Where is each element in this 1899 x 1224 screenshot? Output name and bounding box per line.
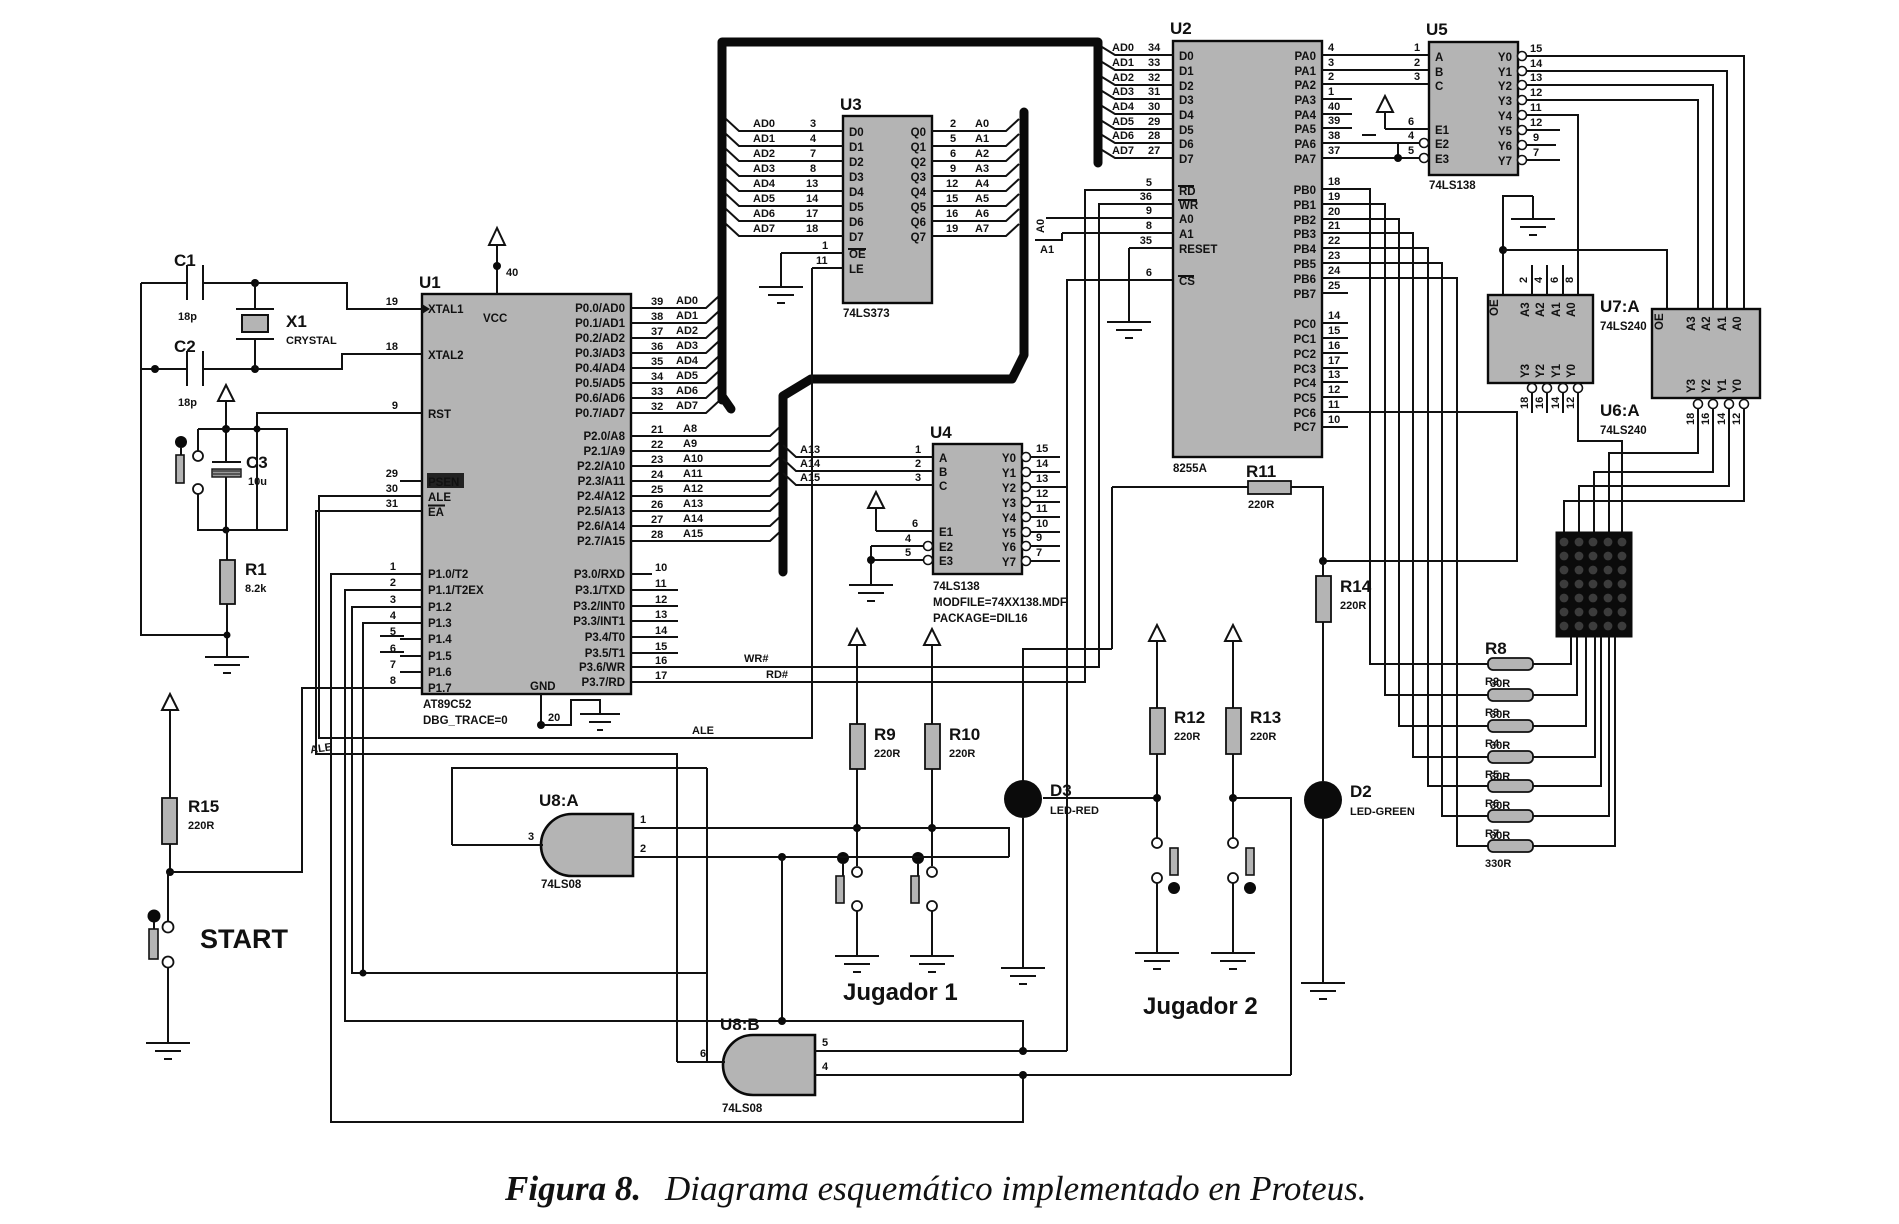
- svg-text:P2.6/A14: P2.6/A14: [577, 521, 626, 533]
- svg-text:10: 10: [1036, 518, 1048, 530]
- ground under R1: [205, 635, 249, 673]
- svg-text:LED-GREEN: LED-GREEN: [1350, 806, 1415, 818]
- U1 P0 pins right: [575, 295, 719, 420]
- svg-text:Y4: Y4: [1498, 111, 1513, 123]
- pin RST (9): [400, 412, 422, 414]
- svg-text:P0.3/AD3: P0.3/AD3: [575, 348, 625, 360]
- svg-text:R13: R13: [1250, 708, 1281, 727]
- svg-text:37: 37: [1328, 145, 1340, 157]
- svg-text:220R: 220R: [949, 748, 975, 760]
- svg-text:12: 12: [1328, 384, 1340, 396]
- svg-text:5: 5: [905, 547, 911, 559]
- svg-text:A15: A15: [800, 472, 820, 484]
- svg-text:2: 2: [1518, 277, 1530, 283]
- svg-text:3: 3: [810, 118, 816, 130]
- svg-text:Jugador 1: Jugador 1: [843, 979, 958, 1006]
- svg-text:74LS240: 74LS240: [1600, 425, 1647, 437]
- svg-text:A2: A2: [1535, 302, 1547, 317]
- svg-text:D0: D0: [1179, 51, 1194, 63]
- svg-text:13: 13: [1530, 72, 1542, 84]
- svg-text:PC5: PC5: [1294, 393, 1317, 405]
- svg-text:7: 7: [1533, 147, 1539, 159]
- svg-text:2: 2: [640, 843, 646, 855]
- svg-text:Jugador 2: Jugador 2: [1143, 993, 1258, 1020]
- svg-text:ALE: ALE: [428, 492, 451, 504]
- node XTAL1 junction: [251, 279, 259, 287]
- resistor row4: [1488, 751, 1533, 763]
- svg-text:19: 19: [386, 296, 398, 308]
- svg-text:16: 16: [1328, 340, 1340, 352]
- svg-text:U4: U4: [930, 423, 952, 442]
- svg-text:OE: OE: [1489, 299, 1501, 316]
- svg-text:18: 18: [1328, 176, 1340, 188]
- wire ALE net U1 to U3 LE: [309, 268, 812, 756]
- svg-text:30: 30: [386, 483, 398, 495]
- pin GND (20): [537, 694, 620, 730]
- U4 A B C inputs from bus: [783, 444, 947, 493]
- svg-text:16: 16: [946, 208, 958, 220]
- svg-text:17: 17: [806, 208, 818, 220]
- svg-text:Q1: Q1: [911, 142, 927, 154]
- svg-text:PB5: PB5: [1294, 259, 1317, 271]
- ground R13 button: [1211, 953, 1255, 969]
- svg-text:PA4: PA4: [1294, 110, 1316, 122]
- svg-text:36: 36: [651, 341, 663, 353]
- svg-text:D5: D5: [1179, 125, 1194, 137]
- svg-text:P1.2: P1.2: [428, 602, 452, 614]
- svg-text:A6: A6: [975, 208, 989, 220]
- svg-text:A1: A1: [975, 133, 989, 145]
- U4 Y outputs: [1002, 443, 1067, 569]
- buffer U7:A 74LS240: [1488, 265, 1647, 532]
- svg-text:Q4: Q4: [911, 187, 927, 199]
- svg-text:PA0: PA0: [1294, 51, 1316, 63]
- svg-text:P0.0/AD0: P0.0/AD0: [575, 303, 625, 315]
- svg-text:A14: A14: [683, 513, 704, 525]
- U1 P3 pins right: [573, 562, 678, 689]
- bus A0-A15 address: [783, 112, 1024, 572]
- svg-text:P3.6/WR: P3.6/WR: [579, 662, 626, 674]
- svg-text:A13: A13: [683, 498, 703, 510]
- svg-text:2: 2: [1328, 71, 1334, 83]
- svg-text:34: 34: [651, 371, 664, 383]
- svg-text:1: 1: [390, 561, 396, 573]
- svg-text:START: START: [200, 924, 288, 954]
- svg-text:P1.1/T2EX: P1.1/T2EX: [428, 585, 484, 597]
- svg-text:Y2: Y2: [1002, 483, 1016, 495]
- pin U3 OE (1): [781, 252, 843, 254]
- svg-text:74LS138: 74LS138: [1429, 180, 1476, 192]
- U1 P2 pins right: [577, 423, 783, 548]
- svg-text:Y0: Y0: [1498, 52, 1512, 64]
- svg-text:AT89C52: AT89C52: [423, 699, 471, 711]
- svg-text:18p: 18p: [178, 397, 197, 409]
- pin U2 RD (5): [1146, 177, 1196, 198]
- svg-text:AD4: AD4: [1112, 101, 1135, 113]
- decoder U5 74LS138: [1362, 20, 1744, 309]
- svg-text:32: 32: [1148, 72, 1160, 84]
- svg-text:P1.7: P1.7: [428, 683, 452, 695]
- wire U8B pin5: [815, 1050, 1067, 1052]
- U5 Y outputs: [1498, 43, 1744, 309]
- svg-text:A13: A13: [800, 444, 820, 456]
- svg-text:AD7: AD7: [1112, 145, 1134, 157]
- svg-text:Diagrama esquemático implement: Diagrama esquemático implementado en Pro…: [664, 1169, 1367, 1208]
- svg-text:AD1: AD1: [753, 133, 775, 145]
- svg-text:220R: 220R: [188, 820, 214, 832]
- svg-text:28: 28: [651, 529, 663, 541]
- wire CS net (U4 Y2 - U2 CS - U8B.5): [1067, 280, 1174, 1051]
- svg-text:PC0: PC0: [1294, 319, 1316, 331]
- pin U5 E1 (6) with VCC: [1362, 96, 1450, 137]
- svg-text:4: 4: [1533, 276, 1545, 283]
- svg-text:Y5: Y5: [1498, 126, 1513, 138]
- svg-text:220R: 220R: [1248, 499, 1274, 511]
- svg-text:AD6: AD6: [753, 208, 775, 220]
- U1 P1 pins 1-8: [380, 561, 484, 695]
- pin U2 A0 (9): [1035, 205, 1194, 233]
- power VCC arrow (U1 pin 40): [489, 228, 518, 294]
- svg-text:RD#: RD#: [766, 669, 788, 681]
- svg-text:37: 37: [651, 326, 663, 338]
- resistor row6: [1488, 810, 1533, 822]
- svg-text:Y3: Y3: [1002, 498, 1016, 510]
- svg-text:3: 3: [528, 831, 534, 843]
- wire pin2 drop: [781, 857, 783, 1021]
- svg-text:CS: CS: [1179, 276, 1195, 288]
- svg-text:Y0: Y0: [1002, 453, 1016, 465]
- svg-text:PC3: PC3: [1294, 364, 1316, 376]
- svg-text:AD5: AD5: [676, 370, 698, 382]
- svg-text:U6:A: U6:A: [1600, 401, 1640, 420]
- svg-text:A3: A3: [1686, 316, 1698, 331]
- power VCC arrow (R15): [162, 694, 178, 798]
- svg-text:PB3: PB3: [1294, 229, 1316, 241]
- svg-text:220R: 220R: [874, 748, 900, 760]
- pin EA (31): [400, 510, 422, 512]
- svg-text:25: 25: [651, 484, 663, 496]
- svg-text:4: 4: [905, 533, 912, 545]
- svg-text:13: 13: [806, 178, 818, 190]
- svg-text:38: 38: [1328, 130, 1340, 142]
- resistor row2: [1488, 689, 1533, 701]
- svg-text:Y3: Y3: [1498, 96, 1512, 108]
- svg-text:PA5: PA5: [1294, 124, 1316, 136]
- svg-text:2: 2: [1414, 57, 1420, 69]
- svg-text:X1: X1: [286, 312, 307, 331]
- svg-text:AD3: AD3: [753, 163, 775, 175]
- svg-text:U5: U5: [1426, 20, 1448, 39]
- U2 D0-D7 inputs from AD bus: [1102, 42, 1194, 166]
- svg-text:P0.2/AD2: P0.2/AD2: [575, 333, 625, 345]
- svg-text:AD4: AD4: [676, 355, 699, 367]
- svg-text:10u: 10u: [248, 476, 267, 488]
- svg-text:3: 3: [390, 594, 396, 606]
- svg-text:D6: D6: [1179, 139, 1194, 151]
- svg-text:22: 22: [651, 439, 663, 451]
- svg-text:Q3: Q3: [911, 172, 926, 184]
- svg-text:P0.1/AD1: P0.1/AD1: [575, 318, 625, 330]
- svg-text:A0: A0: [1566, 302, 1578, 317]
- svg-text:15: 15: [1328, 325, 1340, 337]
- svg-text:RST: RST: [428, 409, 451, 421]
- svg-text:E2: E2: [939, 542, 953, 554]
- svg-text:A3: A3: [975, 163, 989, 175]
- wire U8A pin3 loop: [452, 768, 707, 845]
- svg-text:GND: GND: [530, 681, 556, 693]
- U6A bottom pins to matrix: [1694, 400, 1703, 409]
- svg-text:AD0: AD0: [1112, 42, 1134, 54]
- wire Y0 to U6A: [1527, 56, 1744, 309]
- svg-text:A2: A2: [975, 148, 989, 160]
- svg-text:18p: 18p: [178, 311, 197, 323]
- node XTAL2 junction: [251, 365, 259, 373]
- resistor row3: [1488, 720, 1533, 732]
- svg-text:Y1: Y1: [1002, 468, 1017, 480]
- svg-text:13: 13: [655, 609, 667, 621]
- svg-text:B: B: [1435, 67, 1443, 79]
- svg-text:14: 14: [1328, 310, 1341, 322]
- svg-text:R10: R10: [949, 725, 980, 744]
- button START: [148, 872, 289, 1043]
- svg-text:9: 9: [392, 400, 398, 412]
- svg-text:12: 12: [1731, 413, 1743, 425]
- svg-text:13: 13: [1328, 369, 1340, 381]
- bus AD0-AD7 top: [722, 42, 1098, 400]
- svg-text:Y6: Y6: [1498, 141, 1512, 153]
- svg-text:Y0: Y0: [1732, 379, 1744, 393]
- svg-text:D4: D4: [849, 187, 864, 199]
- svg-text:E1: E1: [939, 527, 954, 539]
- pin U8B 6 input: [677, 1061, 725, 1063]
- svg-text:19: 19: [946, 223, 958, 235]
- svg-text:Y3: Y3: [1520, 364, 1532, 378]
- svg-text:8: 8: [1146, 220, 1152, 232]
- svg-text:2: 2: [390, 577, 396, 589]
- svg-text:6: 6: [912, 518, 918, 530]
- U2 PC pins: [1294, 310, 1517, 561]
- wire RD# to U2: [652, 190, 1174, 682]
- wire EA loop: [316, 511, 677, 1062]
- svg-text:A15: A15: [683, 528, 703, 540]
- wire U7A Y0 to matrix: [1578, 393, 1622, 532]
- capacitor C2: [141, 337, 255, 409]
- svg-text:D6: D6: [849, 217, 864, 229]
- svg-text:30: 30: [1148, 101, 1160, 113]
- resistor R15: [162, 797, 219, 872]
- svg-text:3: 3: [1328, 57, 1334, 69]
- svg-text:P2.4/A12: P2.4/A12: [577, 491, 625, 503]
- svg-text:4: 4: [1408, 130, 1415, 142]
- svg-text:5: 5: [822, 1037, 828, 1049]
- svg-text:PSEN: PSEN: [428, 477, 459, 489]
- svg-text:18: 18: [1519, 397, 1531, 409]
- svg-text:P2.1/A9: P2.1/A9: [583, 446, 625, 458]
- svg-text:39: 39: [1328, 115, 1340, 127]
- svg-text:R9: R9: [874, 725, 896, 744]
- svg-text:33: 33: [1148, 57, 1160, 69]
- svg-text:7: 7: [1036, 547, 1042, 559]
- pin U5 E3 (5): [1408, 145, 1449, 166]
- resistor R9 with VCC and button (Jugador 1): [835, 629, 900, 972]
- svg-text:P0.5/AD5: P0.5/AD5: [575, 378, 625, 390]
- svg-text:15: 15: [946, 193, 958, 205]
- svg-text:220R: 220R: [1340, 600, 1366, 612]
- wire EA/P1 vertical: [706, 768, 708, 1062]
- wire START net to P1.7: [170, 688, 400, 872]
- svg-text:7: 7: [810, 148, 816, 160]
- svg-text:EA: EA: [428, 507, 444, 519]
- U3 Q outputs to address bus: [911, 118, 1019, 244]
- svg-text:Y7: Y7: [1498, 156, 1512, 168]
- svg-text:CRYSTAL: CRYSTAL: [286, 335, 337, 347]
- svg-text:1: 1: [1328, 86, 1334, 98]
- svg-text:18: 18: [1685, 413, 1697, 425]
- wire PC7 stub: [1322, 426, 1348, 428]
- svg-text:36: 36: [1140, 191, 1152, 203]
- svg-text:P1.3: P1.3: [428, 618, 452, 630]
- svg-text:P3.5/T1: P3.5/T1: [585, 648, 626, 660]
- svg-text:B: B: [939, 467, 947, 479]
- pin U2 CS (6): [1146, 267, 1195, 288]
- svg-text:40: 40: [506, 267, 518, 279]
- svg-text:7: 7: [390, 659, 396, 671]
- svg-text:E2: E2: [1435, 139, 1449, 151]
- svg-text:C3: C3: [246, 453, 268, 472]
- svg-text:24: 24: [651, 469, 664, 481]
- power VCC arrow (reset): [218, 385, 234, 429]
- svg-text:P1.0/T2: P1.0/T2: [428, 569, 468, 581]
- svg-text:11: 11: [1328, 399, 1340, 411]
- svg-text:C2: C2: [174, 337, 196, 356]
- ground symbol near U5: [1511, 219, 1555, 235]
- node E2/E3 tie: [1397, 143, 1399, 158]
- svg-text:74LS08: 74LS08: [722, 1103, 763, 1115]
- svg-text:AD3: AD3: [676, 340, 698, 352]
- wires AD0-AD7 to bus: [648, 296, 719, 413]
- svg-text:12: 12: [1530, 117, 1542, 129]
- svg-text:15: 15: [1036, 443, 1048, 455]
- microcontroller U1 AT89C52: [380, 228, 783, 730]
- pin U2 WR (36): [1140, 191, 1199, 212]
- svg-text:2: 2: [950, 118, 956, 130]
- crystal X1: [236, 283, 337, 369]
- ground U3 OE: [759, 253, 803, 303]
- svg-text:P2.0/A8: P2.0/A8: [583, 431, 625, 443]
- svg-text:WR: WR: [1179, 200, 1199, 212]
- svg-text:18: 18: [806, 223, 818, 235]
- svg-text:ALE: ALE: [692, 725, 714, 737]
- U2 PA pins: [1294, 42, 1429, 166]
- wire left rail: [141, 283, 227, 635]
- svg-text:D2: D2: [1350, 782, 1372, 801]
- svg-text:U8:B: U8:B: [720, 1015, 760, 1034]
- svg-text:6: 6: [1549, 277, 1561, 283]
- wire XTAL1 to U1: [255, 283, 400, 309]
- pin U2 A1 (8): [1035, 220, 1194, 256]
- resistor R11: [1112, 462, 1327, 565]
- svg-text:AD1: AD1: [1112, 57, 1134, 69]
- svg-text:Y1: Y1: [1498, 67, 1513, 79]
- svg-text:A8: A8: [683, 423, 697, 435]
- svg-text:9: 9: [1146, 205, 1152, 217]
- pin U5 E2 (4): [1408, 130, 1449, 151]
- wire matrix row pins to R8 ladder: [1533, 637, 1571, 664]
- resistor ladder R8 (R2-R8 330R): [1485, 639, 1533, 870]
- node R15/START junction: [166, 868, 174, 876]
- svg-text:A3: A3: [1520, 302, 1532, 317]
- svg-text:14: 14: [1550, 396, 1562, 409]
- svg-text:29: 29: [1148, 116, 1160, 128]
- pin U4 E3 (5): [871, 547, 953, 568]
- svg-text:AD2: AD2: [676, 325, 698, 337]
- svg-text:LE: LE: [849, 264, 864, 276]
- svg-text:AD0: AD0: [753, 118, 775, 130]
- svg-text:R11: R11: [1246, 462, 1276, 481]
- svg-text:12: 12: [1565, 397, 1577, 409]
- svg-text:AD2: AD2: [753, 148, 775, 160]
- wire U8B pin4: [815, 1074, 1291, 1076]
- svg-text:17: 17: [655, 670, 667, 682]
- svg-text:R14: R14: [1340, 577, 1372, 596]
- svg-text:XTAL2: XTAL2: [428, 350, 464, 362]
- svg-text:P1.5: P1.5: [428, 651, 452, 663]
- pin U4 E1 (6) with VCC: [868, 492, 954, 539]
- svg-text:D7: D7: [1179, 154, 1194, 166]
- svg-text:R15: R15: [188, 797, 219, 816]
- wire Y6 stub: [1527, 144, 1556, 146]
- svg-text:32: 32: [651, 401, 663, 413]
- svg-text:12: 12: [946, 178, 958, 190]
- resistor row1: [1488, 658, 1533, 670]
- resistor row7: [1488, 840, 1533, 852]
- svg-text:D3: D3: [849, 172, 864, 184]
- svg-text:Y5: Y5: [1002, 528, 1017, 540]
- svg-text:A1: A1: [1179, 229, 1194, 241]
- svg-text:E3: E3: [939, 556, 953, 568]
- svg-text:PB4: PB4: [1294, 244, 1317, 256]
- svg-text:A11: A11: [683, 468, 703, 480]
- svg-text:220R: 220R: [1174, 731, 1200, 743]
- svg-text:DBG_TRACE=0: DBG_TRACE=0: [423, 715, 508, 727]
- svg-text:6: 6: [950, 148, 956, 160]
- svg-text:Y2: Y2: [1535, 364, 1547, 378]
- svg-text:14: 14: [655, 625, 668, 637]
- ground U4 E2/E3: [849, 585, 893, 601]
- wire Y4 to U7A: [1527, 115, 1578, 295]
- svg-text:10: 10: [655, 562, 667, 574]
- svg-text:74LS240: 74LS240: [1600, 321, 1647, 333]
- svg-text:16: 16: [1700, 413, 1712, 425]
- pin U4 E2 (4): [871, 533, 953, 554]
- wire P1.2 loop to U8B pin5 net: [352, 607, 707, 973]
- svg-text:A0: A0: [1035, 219, 1047, 233]
- svg-text:15: 15: [655, 641, 667, 653]
- svg-text:PA3: PA3: [1294, 95, 1316, 107]
- svg-text:16: 16: [655, 655, 667, 667]
- svg-text:D3: D3: [1179, 95, 1194, 107]
- svg-text:R1: R1: [245, 560, 267, 579]
- svg-text:12: 12: [1036, 488, 1048, 500]
- svg-text:PC7: PC7: [1294, 422, 1316, 434]
- svg-text:14: 14: [1716, 412, 1728, 425]
- svg-text:Y1: Y1: [1551, 363, 1563, 378]
- ground R12 button: [1135, 953, 1179, 969]
- svg-text:D1: D1: [1179, 66, 1194, 78]
- svg-text:Q7: Q7: [911, 232, 926, 244]
- wire P1.0 loop to U8B pin4 net: [331, 574, 1023, 1122]
- button reset: [175, 436, 203, 494]
